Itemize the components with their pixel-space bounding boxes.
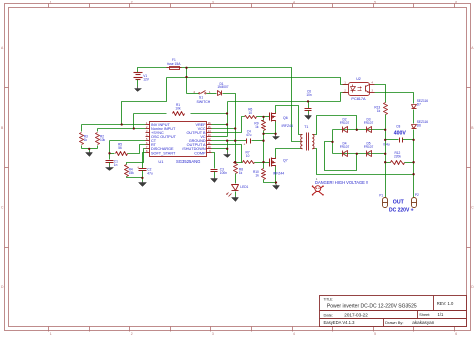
svg-text:47u: 47u <box>147 172 153 176</box>
svg-text:Date:: Date: <box>324 312 334 317</box>
svg-text:56: 56 <box>118 146 122 150</box>
svg-text:10n: 10n <box>306 93 312 97</box>
svg-text:DANGER! HIGH VOLTAGE !!: DANGER! HIGH VOLTAGE !! <box>315 180 368 185</box>
svg-text:PC817A: PC817A <box>351 97 366 101</box>
svg-text:DC 220V +: DC 220V + <box>389 207 414 213</box>
svg-text:47u: 47u <box>246 133 252 137</box>
svg-text:10k: 10k <box>175 107 181 111</box>
svg-text:Sheet:: Sheet: <box>419 313 430 317</box>
svg-text:12V: 12V <box>143 78 150 82</box>
svg-text:FR107: FR107 <box>364 121 374 125</box>
svg-text:+: + <box>243 142 245 146</box>
svg-text:2017-03-22: 2017-03-22 <box>344 312 368 317</box>
svg-text:FR107: FR107 <box>364 145 374 149</box>
svg-text:15k: 15k <box>129 171 135 175</box>
svg-text:Drawn By:: Drawn By: <box>385 320 403 325</box>
svg-text:5: 5 <box>374 0 376 4</box>
svg-text:1k: 1k <box>377 109 381 113</box>
svg-text:EasyEDA V4.1.3: EasyEDA V4.1.3 <box>324 320 356 325</box>
svg-text:fuse 15A: fuse 15A <box>167 62 181 66</box>
svg-text:Q6: Q6 <box>283 116 288 120</box>
svg-text:OUT: OUT <box>393 200 405 206</box>
svg-text:LED1: LED1 <box>240 185 248 189</box>
svg-text:1: 1 <box>50 0 52 4</box>
svg-text:1k: 1k <box>255 174 259 178</box>
svg-text:FR107: FR107 <box>340 145 350 149</box>
svg-text:D6: D6 <box>417 123 421 127</box>
svg-text:220k: 220k <box>394 155 401 159</box>
svg-text:3: 3 <box>212 0 214 4</box>
svg-text:P1: P1 <box>379 194 383 198</box>
svg-text:10: 10 <box>246 154 250 158</box>
svg-text:P2: P2 <box>415 193 419 197</box>
svg-text:0.4u: 0.4u <box>383 142 389 146</box>
svg-text:FR107: FR107 <box>340 121 350 125</box>
svg-text:TITLE:: TITLE: <box>324 297 334 301</box>
svg-text:1N4007: 1N4007 <box>217 85 228 89</box>
svg-text:400V: 400V <box>394 131 407 137</box>
svg-text:4: 4 <box>293 0 295 4</box>
svg-text:akakasyan: akakasyan <box>412 320 434 325</box>
svg-text:+: + <box>137 166 139 170</box>
svg-text:100n: 100n <box>220 171 227 175</box>
svg-text:Q7: Q7 <box>283 158 288 162</box>
svg-text:U2: U2 <box>356 77 361 81</box>
svg-text:1/1: 1/1 <box>438 312 444 317</box>
svg-text:10: 10 <box>249 111 253 115</box>
svg-text:COMP: COMP <box>194 151 206 155</box>
svg-text:T1: T1 <box>304 125 308 129</box>
svg-text:U1: U1 <box>158 159 164 164</box>
svg-text:SG3525ANG: SG3525ANG <box>176 159 200 164</box>
svg-text:10k: 10k <box>100 138 106 142</box>
svg-text:2: 2 <box>131 0 133 4</box>
svg-text:1k: 1k <box>84 138 88 142</box>
svg-text:C8: C8 <box>396 125 400 129</box>
svg-text:REV: 1.0: REV: 1.0 <box>437 301 454 306</box>
svg-text:SWITCH: SWITCH <box>196 100 210 104</box>
svg-text:SOFT_START: SOFT_START <box>151 151 176 155</box>
svg-text:6: 6 <box>455 0 457 4</box>
svg-text:S1: S1 <box>199 95 203 99</box>
svg-text:1k: 1k <box>255 125 259 129</box>
svg-text:IRFZ44: IRFZ44 <box>282 124 293 128</box>
svg-text:D7: D7 <box>417 103 421 107</box>
svg-text:1k: 1k <box>239 171 243 175</box>
svg-text:Power inverter DC-DC 12-220V S: Power inverter DC-DC 12-220V SG3525 <box>327 304 417 310</box>
svg-text:IRFZ44: IRFZ44 <box>273 172 284 176</box>
svg-text:1n: 1n <box>114 163 118 167</box>
